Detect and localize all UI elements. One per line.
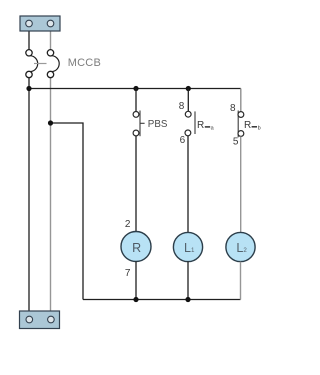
- wire lamp L2 to bus corner (gray): [240, 262, 242, 300]
- svg-text:7: 7: [125, 268, 131, 279]
- junction dot Ra branch bottom: [185, 297, 190, 302]
- wire L2 (gray, MCCB down to bottom block): [50, 78, 52, 317]
- svg-text:6: 6: [180, 135, 186, 146]
- wire rail to PBS: [135, 89, 137, 112]
- wire relay coil to bus: [135, 262, 137, 300]
- wire PBS to relay coil: [135, 136, 137, 232]
- relay coil R: [121, 232, 151, 262]
- svg-text:5: 5: [233, 137, 239, 148]
- junction dot rail left: [26, 86, 31, 91]
- pushbutton PBS: [133, 111, 145, 137]
- junction dot neutral tap: [48, 120, 53, 125]
- MCCB link bar: [34, 63, 47, 65]
- svg-text:8: 8: [230, 103, 236, 114]
- contact R-a (NO): [185, 111, 195, 136]
- contact R-b (NC): [238, 111, 244, 138]
- MCCB pole 2 bottom contact: [47, 71, 53, 77]
- MCCB pole 2 top contact: [47, 50, 53, 56]
- MCCB pole 1 top contact: [26, 50, 32, 56]
- wire contact Rb to lamp L2 (gray): [240, 136, 242, 232]
- wire rail to contact Ra: [187, 89, 189, 112]
- svg-text:R: R: [132, 241, 141, 255]
- lamp L1: [173, 232, 202, 261]
- MCCB pole 2 arc: [52, 56, 59, 72]
- wire top rail: [29, 88, 241, 90]
- terminal block TB1 (top): [20, 16, 60, 31]
- wire neutral rail: [51, 123, 84, 300]
- wire bottom bus: [83, 299, 241, 301]
- wire L1 (black, MCCB to rail and down to bottom block): [28, 78, 30, 318]
- svg-text:MCCB: MCCB: [68, 57, 101, 69]
- wire lamp L1 to bus: [187, 262, 189, 300]
- svg-text:R: R: [244, 120, 251, 131]
- svg-text:b: b: [258, 126, 261, 132]
- svg-text:2: 2: [125, 219, 131, 230]
- wire rail corner to contact Rb (gray): [240, 89, 242, 112]
- wire L1 source (black, top block to MCCB): [28, 26, 30, 50]
- wire L2 source (gray, top block to MCCB): [50, 26, 52, 50]
- junction dot PBS branch bottom: [133, 297, 138, 302]
- svg-text:R: R: [197, 120, 204, 131]
- svg-text:PBS: PBS: [148, 119, 168, 130]
- junction dot Ra branch top: [186, 86, 191, 91]
- MCCB pole 1 bottom contact: [26, 71, 32, 77]
- wire contact Ra to lamp L1: [187, 136, 189, 233]
- MCCB pole 1 arc: [31, 56, 38, 72]
- terminal block TB2 (bottom): [20, 311, 60, 329]
- junction dot PBS branch top: [133, 86, 138, 91]
- lamp L2: [226, 232, 255, 261]
- MCCB breaker: [26, 50, 59, 78]
- svg-text:8: 8: [179, 101, 185, 112]
